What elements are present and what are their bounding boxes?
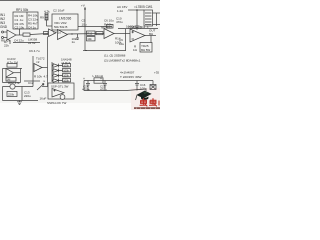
svg-text:100k: 100k bbox=[63, 73, 69, 77]
ground symbol bbox=[135, 26, 140, 29]
resistor RD2 bbox=[63, 69, 71, 72]
label 4.7u bbox=[44, 75, 49, 83]
wire regulator input bbox=[128, 9, 144, 11]
label below A1 bbox=[4, 40, 9, 47]
label R15 top right bbox=[117, 5, 127, 13]
label left of speaker bbox=[133, 45, 138, 53]
svg-text:T 220/15V 30W: T 220/15V 30W bbox=[120, 75, 142, 79]
wire C9 vertical bbox=[125, 29, 127, 51]
top image border line bbox=[0, 0, 160, 2]
A1 input terminal bottom bbox=[2, 37, 4, 39]
U1 right text bbox=[28, 14, 38, 30]
diode D3 bbox=[52, 74, 63, 78]
svg-text:x2 5V: x2 5V bbox=[28, 41, 36, 45]
svg-text:+35: +35 bbox=[154, 71, 159, 75]
label R10 bbox=[104, 19, 114, 27]
capacitor C7 bbox=[76, 34, 79, 40]
wire right vert bbox=[20, 69, 22, 83]
label TL072 bbox=[36, 57, 45, 65]
svg-text:C2 10u: C2 10u bbox=[15, 26, 25, 30]
svg-text:SSP-OTL 3W: SSP-OTL 3W bbox=[51, 85, 69, 89]
svg-text:R9: R9 bbox=[40, 16, 44, 20]
psu top rail bbox=[84, 80, 153, 82]
EQ IC U2 box bbox=[52, 14, 78, 30]
box bottom line bbox=[13, 42, 40, 44]
wire fb bbox=[3, 68, 23, 70]
diode D1 bbox=[52, 64, 63, 68]
op-amp A5 power bbox=[130, 29, 145, 42]
pot arrow bbox=[37, 84, 44, 91]
U1 internal divider bbox=[26, 12, 28, 29]
op-amp A1 bbox=[7, 30, 16, 40]
wire U3 out bbox=[153, 12, 161, 14]
label R12 stack bbox=[87, 31, 96, 35]
ground bus mid bbox=[85, 50, 126, 52]
cap C16 bbox=[135, 81, 139, 91]
wire into amp box bbox=[42, 86, 48, 88]
svg-text:(1). (2) 2SD868: (1). (2) 2SD868 bbox=[104, 54, 126, 58]
resistor R18 bbox=[7, 92, 17, 97]
feedback wire A1 bbox=[19, 29, 21, 35]
svg-text:220k: 220k bbox=[8, 93, 15, 97]
power amp box bbox=[48, 83, 74, 99]
svg-text:1.2A: 1.2A bbox=[117, 9, 123, 13]
label C10 bbox=[116, 17, 123, 25]
input jack labels bbox=[0, 13, 8, 29]
cap C15 bbox=[103, 81, 107, 91]
regulator U3 box bbox=[144, 10, 153, 26]
label C14 bbox=[82, 84, 90, 91]
node bbox=[71, 33, 72, 34]
svg-text:+: + bbox=[100, 77, 102, 81]
svg-text:R12: R12 bbox=[87, 32, 93, 36]
label TDA left bbox=[0, 0, 1, 1]
wire bottom A7 bbox=[24, 80, 40, 82]
label OUT bbox=[149, 29, 156, 36]
V+ rail arrow bbox=[84, 8, 86, 51]
long vertical wire x33 bbox=[32, 56, 34, 87]
svg-text:8Ω 5W: 8Ω 5W bbox=[141, 48, 150, 52]
resistor R13 bbox=[96, 32, 103, 35]
svg-text:C4 1u: C4 1u bbox=[28, 26, 36, 30]
resistor box end of wire bbox=[107, 24, 114, 28]
A8 plus minus bbox=[54, 90, 56, 92]
wire to A2 bbox=[30, 34, 48, 35]
label C9 bbox=[119, 38, 124, 46]
svg-text:=L7805 CW1: =L7805 CW1 bbox=[134, 5, 153, 9]
speaker text bbox=[141, 44, 150, 52]
A5 plus minus bbox=[132, 31, 135, 39]
meter circle M1 bbox=[10, 84, 15, 89]
svg-text:GND: GND bbox=[0, 25, 8, 29]
svg-text:100k: 100k bbox=[63, 68, 69, 72]
svg-text:4.7u 1M: 4.7u 1M bbox=[7, 61, 18, 65]
label C16 bbox=[140, 83, 147, 91]
vertical wire to gnd bbox=[136, 10, 138, 26]
svg-text:(2) LM3886Tx2 8DA868x1: (2) LM3886Tx2 8DA868x1 bbox=[104, 59, 141, 63]
label C13 bbox=[24, 91, 31, 99]
svg-text:50k 50k B: 50k 50k B bbox=[54, 25, 67, 29]
wire A6 out bbox=[14, 72, 21, 74]
svg-text:C6 4.7u: C6 4.7u bbox=[29, 49, 40, 53]
svg-text:16uF: 16uF bbox=[40, 97, 47, 101]
wire logo stub bbox=[145, 89, 147, 91]
diode D2 bbox=[52, 69, 63, 73]
header 1N4148 bbox=[61, 58, 72, 66]
bottom rail of psu bbox=[118, 28, 158, 30]
psu right vert bbox=[152, 81, 154, 87]
svg-text:C2 10uF: C2 10uF bbox=[53, 9, 65, 13]
background bbox=[0, 0, 160, 110]
watermark char chong 1 bbox=[140, 98, 148, 106]
ground symbol bottom bbox=[17, 101, 22, 105]
label cap bbox=[126, 25, 149, 30]
resistor R11 bbox=[44, 32, 49, 35]
wire meter top bbox=[3, 86, 34, 88]
wire bottom bbox=[3, 82, 21, 84]
svg-text:220u: 220u bbox=[24, 94, 31, 98]
svg-text:×2: ×2 bbox=[36, 60, 40, 64]
svg-text:C4 22u: C4 22u bbox=[14, 39, 24, 43]
wire A1 ground stub bbox=[9, 40, 11, 44]
label C12 bbox=[28, 81, 47, 101]
tone control block U1 box bbox=[13, 12, 38, 29]
op-amp A2 bbox=[49, 29, 57, 37]
label under A3 bbox=[72, 37, 77, 44]
label R14 bbox=[115, 37, 122, 45]
node dot bbox=[136, 9, 138, 11]
watermark small char right bbox=[158, 101, 160, 106]
U2 text bbox=[54, 17, 71, 30]
label diodes bbox=[120, 71, 142, 80]
svg-text:4×1N4007: 4×1N4007 bbox=[120, 71, 135, 75]
svg-text:R 10k: R 10k bbox=[34, 75, 42, 79]
label C2 bbox=[44, 9, 65, 14]
wire U2 out bbox=[78, 26, 112, 28]
svg-text:100k: 100k bbox=[63, 63, 69, 67]
svg-text:100k: 100k bbox=[63, 78, 69, 82]
resistor R9 vertical bbox=[45, 13, 48, 20]
long wire down bbox=[47, 37, 49, 87]
wire A4 out bbox=[114, 33, 130, 35]
wire meter mid bbox=[21, 87, 23, 101]
op-amp A6 bbox=[6, 69, 14, 78]
svg-text:C12: C12 bbox=[28, 81, 34, 85]
speaker box bbox=[140, 43, 152, 53]
svg-text:NE5532: NE5532 bbox=[101, 26, 112, 30]
U1 left text bbox=[15, 14, 25, 30]
resistor R17 bbox=[6, 78, 16, 82]
wire A5 out bbox=[145, 35, 156, 37]
svg-text:470u: 470u bbox=[116, 20, 123, 24]
gnd symbol mid bbox=[83, 50, 87, 52]
svg-text:SSPAI-OK 7W: SSPAI-OK 7W bbox=[47, 101, 66, 105]
label C10a bbox=[7, 57, 18, 65]
svg-text:10u: 10u bbox=[119, 42, 124, 46]
psu bottom rail bbox=[84, 90, 126, 92]
resistor RD1 bbox=[63, 64, 71, 67]
svg-text:LM1036: LM1036 bbox=[59, 17, 71, 21]
wire to speaker bbox=[150, 36, 152, 43]
watermark underline strip bbox=[134, 107, 160, 109]
watermark char chong 2 bbox=[149, 98, 157, 106]
resistor RD3 bbox=[63, 74, 71, 77]
label C15 bbox=[100, 84, 107, 91]
svg-text:RP1 50k: RP1 50k bbox=[16, 8, 29, 12]
psu left vert bbox=[83, 81, 85, 91]
label C5 bbox=[82, 19, 87, 27]
feedback resistor R16 bbox=[7, 64, 17, 68]
resistor R6 bbox=[23, 33, 30, 36]
wire A7 out bbox=[42, 67, 48, 69]
op-amp A3 bbox=[58, 30, 68, 40]
wire A1 output bbox=[16, 34, 23, 36]
cap C14 bbox=[86, 81, 90, 91]
resistor RD4 bbox=[63, 79, 71, 82]
fuse box bbox=[150, 85, 156, 90]
svg-text:+V: +V bbox=[81, 4, 85, 8]
A1 input terminal top bbox=[2, 31, 4, 33]
pot circle bbox=[60, 95, 65, 100]
U3 pins bbox=[145, 13, 152, 25]
wire bottom rail bbox=[3, 100, 39, 102]
svg-text:+: + bbox=[83, 77, 85, 81]
wire meter left bbox=[2, 87, 4, 101]
svg-text:22k: 22k bbox=[4, 44, 9, 48]
wire A3 out bbox=[68, 33, 105, 36]
op-amp A4 bbox=[104, 29, 114, 39]
op-amp A7 bbox=[34, 64, 42, 72]
svg-text:R8 47k: R8 47k bbox=[1, 39, 11, 43]
svg-text:1u: 1u bbox=[72, 40, 76, 44]
svg-text:10u: 10u bbox=[82, 23, 87, 27]
watermark logo: cap bbox=[136, 91, 152, 100]
op-amp A8 bbox=[52, 89, 64, 98]
diode D4 bbox=[52, 79, 63, 83]
wire left vert bbox=[2, 69, 4, 83]
inductor L1 box bbox=[94, 78, 103, 83]
ladder spine bbox=[51, 62, 53, 82]
svg-text:10k: 10k bbox=[87, 37, 92, 41]
label LM358 bbox=[14, 38, 38, 46]
